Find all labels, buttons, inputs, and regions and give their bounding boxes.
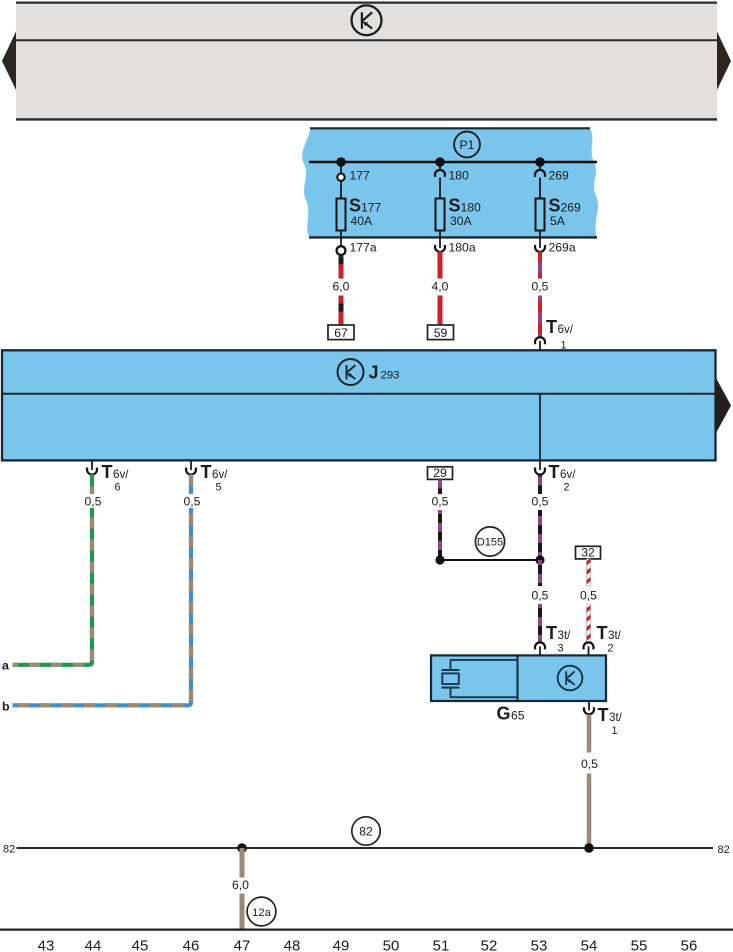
svg-text:2: 2 (564, 482, 570, 494)
wire 269 to fuse (539, 178, 541, 199)
svg-text:29: 29 (433, 466, 447, 480)
svg-text:180a: 180a (449, 240, 476, 254)
svg-text:55: 55 (631, 938, 648, 952)
svg-text:0,5: 0,5 (532, 589, 549, 603)
right continuation arrow (717, 32, 731, 91)
bus bar (30a) inside fuse panel (309, 161, 597, 164)
svg-text:0,5: 0,5 (432, 495, 449, 509)
svg-text:180: 180 (461, 201, 482, 215)
svg-text:12a: 12a (252, 907, 271, 919)
svg-text:43: 43 (38, 938, 55, 952)
svg-text:6v/: 6v/ (560, 468, 576, 481)
svg-text:0,5: 0,5 (581, 757, 598, 771)
svg-text:50: 50 (383, 938, 400, 952)
connector box 32 (576, 546, 601, 560)
junction node track 53 (535, 555, 544, 564)
svg-text:T: T (549, 462, 560, 482)
svg-text:0,5: 0,5 (85, 495, 102, 509)
svg-text:4,0: 4,0 (432, 280, 449, 294)
fuse S269 (536, 196, 582, 231)
svg-text:6: 6 (115, 482, 121, 494)
svg-text:P1: P1 (460, 138, 475, 152)
knock sensor G65 box (431, 655, 606, 701)
fuse S177 (337, 196, 382, 231)
svg-text:67: 67 (334, 326, 348, 340)
wire brown 6.0 to ground point (232, 848, 249, 929)
svg-text:0,5: 0,5 (184, 495, 201, 509)
connector T3t/3 (535, 623, 571, 655)
svg-text:T: T (598, 705, 609, 725)
svg-text:269: 269 (549, 169, 570, 183)
svg-text:44: 44 (85, 938, 102, 952)
svg-text:6,0: 6,0 (232, 878, 249, 892)
J293 continuation arrow (716, 377, 732, 434)
terminal arc 269 (539, 162, 541, 171)
wire 177 to fuse (340, 181, 342, 199)
junction node track 51 (435, 555, 444, 564)
svg-text:269a: 269a (549, 240, 576, 254)
svg-text:6,0: 6,0 (333, 280, 350, 294)
wire red 4.0 from 180a to connector 59 (432, 251, 449, 325)
connector box 29 (428, 466, 453, 480)
svg-text:5: 5 (216, 482, 222, 494)
svg-text:46: 46 (183, 938, 200, 952)
harness symbol K (top) (352, 5, 382, 35)
wire violet/black 0.5 from node to T3t/3 (532, 560, 549, 642)
svg-text:J: J (369, 363, 379, 383)
left continuation arrow (2, 32, 16, 91)
fuse panel P1 box (302, 128, 598, 237)
svg-text:180: 180 (449, 169, 470, 183)
rail designation 82 (352, 817, 380, 845)
svg-text:0,5: 0,5 (580, 589, 597, 603)
label J293 (369, 363, 400, 383)
svg-text:54: 54 (581, 938, 598, 952)
wire fuse S269 to box edge (539, 231, 541, 238)
svg-text:293: 293 (381, 370, 400, 382)
svg-text:82: 82 (359, 824, 373, 838)
wire brown 0.5 from T3t/1 to 82 rail (581, 715, 598, 849)
wire fuse S180 to box edge (439, 231, 441, 238)
svg-text:65: 65 (511, 709, 525, 723)
connector T3t/2 (584, 623, 622, 655)
svg-text:T: T (597, 623, 608, 643)
junction node on bus (track 51) (435, 157, 445, 167)
connector T6v/6 (87, 460, 129, 493)
svg-text:45: 45 (132, 938, 149, 952)
wire red/white 0.5 from 32 to T3t/2 (580, 559, 597, 649)
fuse panel designation P1 (454, 132, 480, 158)
svg-text:T: T (546, 317, 557, 337)
ground point designation 12a (247, 897, 276, 926)
svg-text:82: 82 (3, 843, 15, 855)
connector T6v/2 (535, 460, 576, 493)
svg-text:3t/: 3t/ (608, 629, 622, 642)
svg-text:56: 56 (681, 938, 698, 952)
terminal arc 180 (439, 162, 441, 171)
harness symbol K (G65) (558, 666, 583, 691)
svg-text:a: a (2, 659, 9, 673)
svg-text:T: T (546, 623, 557, 643)
svg-text:3t/: 3t/ (558, 629, 572, 642)
svg-text:T: T (201, 462, 212, 482)
svg-text:2: 2 (608, 642, 614, 654)
svg-text:1: 1 (612, 725, 618, 737)
terminal arc 180a (439, 237, 441, 248)
svg-text:53: 53 (531, 938, 548, 952)
svg-text:32: 32 (581, 546, 595, 560)
svg-text:30A: 30A (450, 214, 473, 228)
svg-text:177: 177 (350, 169, 371, 183)
connection designation D155 (475, 527, 504, 556)
terminal ring 177a (340, 237, 342, 245)
bottom frame line (0, 928, 733, 930)
fuse S180 (436, 196, 482, 231)
svg-text:177a: 177a (350, 240, 377, 254)
svg-text:6v/: 6v/ (212, 468, 228, 481)
svg-text:49: 49 (333, 938, 350, 952)
wire link between nodes (440, 559, 540, 561)
svg-text:40A: 40A (351, 214, 374, 228)
current track numbers (38, 938, 698, 952)
connector T6v/1 (535, 317, 574, 352)
ground rail 82 (3, 843, 730, 855)
svg-text:51: 51 (433, 938, 450, 952)
svg-text:59: 59 (434, 326, 448, 340)
terminal arc 269a (539, 237, 541, 248)
wire red/black 6.0 from 177a to connector 67 (333, 256, 350, 325)
svg-text:48: 48 (284, 938, 301, 952)
junction node on bus (track 49) (336, 157, 346, 167)
svg-text:3t/: 3t/ (609, 711, 623, 724)
wiring harness band (top continuation bus) (16, 2, 717, 120)
connector T6v/5 (186, 460, 228, 493)
control unit J293 box (2, 350, 716, 460)
svg-text:47: 47 (234, 938, 251, 952)
connector T3t/1 (584, 701, 623, 737)
svg-text:S: S (549, 196, 561, 216)
svg-text:T: T (102, 462, 113, 482)
connector box 59 (428, 325, 454, 340)
junction node track 47 (237, 843, 247, 853)
wire blue/brown 0.5 track 46 (13, 475, 201, 706)
svg-text:0,5: 0,5 (532, 495, 549, 509)
harness symbol K (J293) (338, 359, 364, 385)
svg-text:0,5: 0,5 (532, 280, 549, 294)
junction node track 54 (584, 843, 594, 853)
label G65 (497, 704, 525, 724)
junction node on bus (track 53) (535, 157, 545, 167)
wire green/brown 0.5 track 44 (13, 475, 102, 665)
svg-text:177: 177 (361, 201, 382, 215)
terminal ring 177 (340, 162, 342, 174)
svg-text:b: b (2, 700, 10, 714)
wire fuse S177 to box edge (340, 231, 342, 238)
svg-text:6v/: 6v/ (558, 323, 574, 336)
wire violet/black 0.5 from T6v/2 to node (532, 475, 549, 561)
wire violet/black 0.5 from 29 to node (432, 479, 449, 560)
wire 180 to fuse (439, 178, 441, 199)
svg-text:6v/: 6v/ (113, 468, 129, 481)
svg-text:D155: D155 (477, 537, 503, 549)
svg-text:5A: 5A (550, 214, 566, 228)
svg-text:82: 82 (718, 844, 730, 856)
svg-text:269: 269 (561, 201, 582, 215)
svg-text:S: S (449, 196, 461, 216)
piezo element symbol (442, 660, 518, 697)
connector box 67 (328, 325, 354, 340)
svg-text:3: 3 (558, 642, 564, 654)
wire red/violet 0.5 from 269a to T6v/1 (532, 251, 549, 337)
svg-text:S: S (349, 196, 361, 216)
svg-text:52: 52 (481, 938, 498, 952)
svg-text:G: G (497, 704, 511, 724)
